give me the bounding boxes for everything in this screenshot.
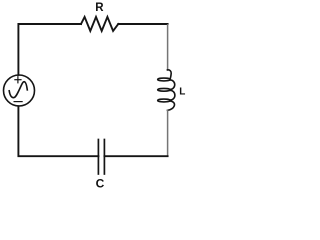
wire bottom-right: corner to capacitor <box>104 155 167 157</box>
wire top-left: source top to resistor <box>18 24 81 75</box>
AC source plus sign <box>15 77 21 83</box>
wire resistor to top-right corner <box>118 23 167 25</box>
capacitor C plate left <box>97 140 99 175</box>
AC source minus sign <box>14 101 22 103</box>
AC source V1 circle <box>4 75 35 106</box>
wire capacitor to source (bottom-left corner) <box>18 106 98 156</box>
svg-text:R: R <box>95 2 104 14</box>
wire right side upper (top corner to inductor), thin <box>167 25 169 70</box>
resistor R <box>81 17 118 31</box>
AC source sine wave <box>9 82 27 98</box>
svg-text:C: C <box>96 176 105 190</box>
svg-text:L: L <box>179 86 185 97</box>
inductor L <box>158 70 175 110</box>
capacitor C plate right <box>103 140 105 175</box>
wire right side lower (inductor to bottom corner), thin <box>167 110 169 155</box>
